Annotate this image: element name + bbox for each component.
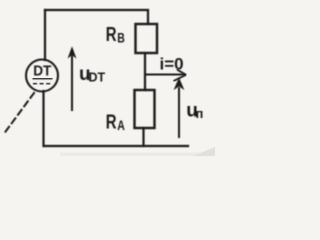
paper background [0, 0, 215, 156]
svg-text:DT: DT [89, 71, 106, 85]
labels [79, 24, 203, 134]
svg-text:R: R [106, 24, 117, 46]
sensor DT circle [26, 60, 58, 92]
svg-text:i=0: i=0 [160, 55, 184, 74]
arrow uDT shaft [71, 52, 73, 110]
wire top [45, 10, 148, 24]
DT dashed underline [33, 83, 52, 85]
svg-text:R: R [106, 112, 117, 134]
wire left lower [42, 91, 44, 146]
wire middle node [144, 53, 146, 90]
wire bottom [44, 145, 188, 147]
wire RA to bottom [142, 128, 144, 146]
dashed lead of sensor [3, 93, 34, 135]
svg-text:DT: DT [33, 64, 51, 80]
arrowhead uDT [68, 46, 77, 58]
wire left upper [44, 10, 46, 60]
arrow un shaft [178, 88, 180, 137]
DT underline [33, 78, 53, 80]
scan smudge bottom-right corner [193, 147, 215, 156]
arrowhead un [174, 78, 185, 91]
arrowhead i=0 (open) [174, 70, 186, 81]
resistor RA body [135, 90, 155, 128]
resistor RB body [136, 24, 158, 53]
svg-text:B: B [117, 31, 125, 46]
wire i=0 stub [145, 74, 184, 76]
svg-text:п: п [196, 106, 204, 121]
svg-text:A: A [117, 118, 125, 133]
DT symbol internals [33, 64, 51, 80]
